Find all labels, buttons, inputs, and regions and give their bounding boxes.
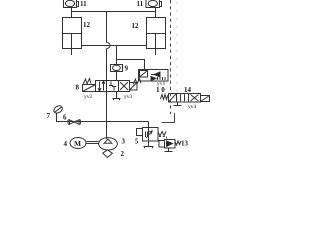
svg-text:13: 13 <box>181 140 189 148</box>
svg-text:9: 9 <box>125 65 129 73</box>
svg-text:5: 5 <box>135 138 139 146</box>
svg-text:yv4: yv4 <box>188 104 197 110</box>
svg-text:yv2: yv2 <box>84 94 93 100</box>
svg-text:2: 2 <box>121 150 125 158</box>
svg-text:3: 3 <box>122 138 126 146</box>
svg-text:M: M <box>74 139 81 148</box>
svg-text:7: 7 <box>47 112 51 120</box>
svg-text:11: 11 <box>137 0 144 8</box>
svg-text:yv3: yv3 <box>124 94 133 100</box>
svg-text:12: 12 <box>83 21 91 29</box>
svg-text:11: 11 <box>80 0 87 8</box>
svg-text:8: 8 <box>76 84 80 92</box>
svg-text:1 0: 1 0 <box>156 86 165 94</box>
svg-text:6: 6 <box>63 114 67 122</box>
svg-text:14: 14 <box>184 86 192 94</box>
svg-text:12: 12 <box>132 22 140 30</box>
svg-text:4: 4 <box>64 140 68 148</box>
